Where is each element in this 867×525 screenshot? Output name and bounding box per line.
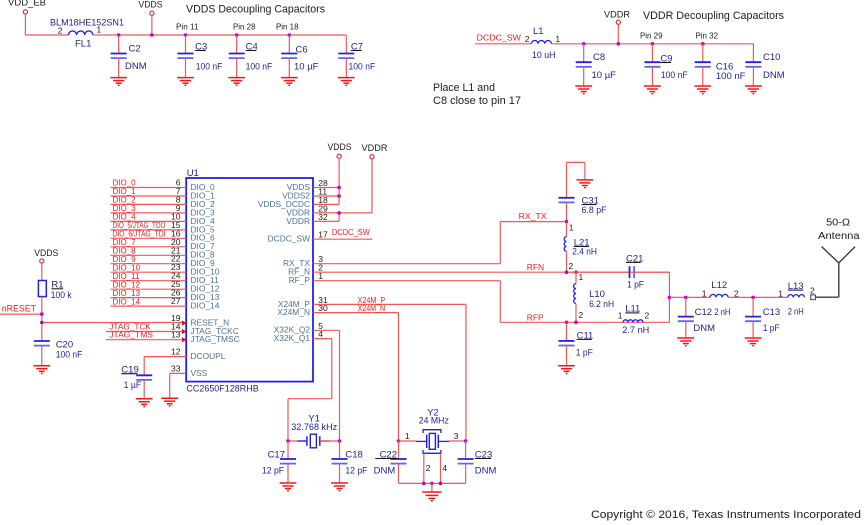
U1 pin 14 [171,322,181,332]
junction VDDS pin 28 [337,186,341,190]
svg-text:VDDS: VDDS [139,0,163,11]
FL1 pin 2 [58,26,63,36]
capacitor C7 [338,35,375,85]
svg-text:Antenna: Antenna [818,231,860,242]
junction VDDR [617,42,621,46]
wire R1 to C20 [41,297,43,341]
U1 pin name DIO_13 [191,292,220,302]
svg-text:2: 2 [810,286,815,296]
svg-text:100 nF: 100 nF [196,61,223,72]
wire net DIO_2 [111,203,187,205]
net label DIO_2 [113,196,137,205]
power terminal VDDR [604,9,630,24]
svg-text:VDDS: VDDS [328,142,352,153]
U1 pin 23 [171,262,181,272]
svg-text:nRESET: nRESET [2,304,37,314]
capacitor C23 [458,441,497,483]
wire net DIO_14 [111,305,187,307]
svg-text:Copyright © 2016, Texas Instru: Copyright © 2016, Texas Instruments Inco… [591,509,861,521]
L10 pin 1 [579,272,584,282]
svg-text:VDDS: VDDS [34,248,58,259]
svg-text:32.768 kHz: 32.768 kHz [291,422,337,433]
U1 pin name DIO_5 [191,224,216,234]
op-amp U1 box [186,178,313,382]
U1 pin 26 [171,288,181,298]
svg-text:VDDR: VDDR [286,216,310,226]
U1 pin 18 [318,195,328,205]
U1 pin 29 [318,203,328,213]
net label RFN [527,262,544,272]
junction C3 [184,33,188,37]
svg-text:100 nF: 100 nF [246,61,273,72]
U1 pin name RF_P (pin 1) [289,275,311,285]
U1 pin name X32K_Q1 (pin 4) [274,333,311,343]
svg-text:JTAG_TMSC: JTAG_TMSC [191,334,240,344]
wire net DIO_6/JTAG_TDI [111,237,187,239]
wire VDDR riser [313,159,372,222]
label Pin 28 [233,22,256,32]
net label DCDC_SW [332,228,370,237]
junction rail pin4 [439,482,443,486]
L12 pin 2 [734,289,739,299]
capacitor C31 [559,195,607,221]
svg-text:50-Ω: 50-Ω [826,218,851,229]
capacitor C3 [177,35,222,85]
svg-text:X24M_N: X24M_N [358,304,386,313]
wire L12 to L13 [728,296,788,298]
power terminal VDD_EB [8,0,46,14]
wire VDDR bus [551,43,753,45]
svg-text:2: 2 [58,26,63,36]
wire net DIO_0 [111,187,187,189]
U1 pin 12 [171,347,181,357]
wire net JTAG_TMS [106,339,182,341]
junction rail gnd [430,482,434,486]
svg-text:VSS: VSS [191,368,208,378]
U1 pin 19 input arrow [182,320,186,325]
U1 pin name DIO_10 [191,267,220,277]
U1 pin name DIO_2 [191,199,216,209]
svg-text:FL1: FL1 [75,39,91,50]
wire RX_TX [313,222,567,264]
junction C16 [701,42,705,46]
net label DIO_6/JTAG_TDI [113,230,166,239]
capacitor C20 [33,339,82,373]
svg-text:27: 27 [171,296,181,306]
net label JTAG_TCK [109,322,151,331]
capacitor C21 [569,253,669,290]
svg-text:DNM: DNM [763,70,785,81]
svg-text:100 nF: 100 nF [661,70,688,81]
net label DIO_8 [113,247,137,256]
U1 pin name DCDC_SW (pin 17) [268,234,310,244]
svg-text:VDDS Decoupling Capacitors: VDDS Decoupling Capacitors [186,4,325,16]
U1 pin 27 [171,296,181,306]
L1 pin 1 [555,34,560,44]
junction Y1 pin 1 [286,439,290,443]
net label DIO_11 [113,272,141,281]
svg-text:100 k: 100 k [51,290,72,301]
junction C8 [582,42,586,46]
U1 pin 6 [176,178,181,188]
svg-text:2: 2 [645,311,650,321]
ground C31 [567,162,594,198]
junction C6 [288,33,292,37]
svg-text:1 pF: 1 pF [576,347,593,358]
label Pin 18 [276,22,299,32]
wire X32K_Q1 to Y1 [288,339,332,441]
svg-text:Place L1 and: Place L1 and [433,82,495,94]
wire net X24M_P [313,304,466,441]
wire DCDC_SW to L1 [475,43,531,45]
wire net X24M_N [313,313,399,441]
svg-text:12 pF: 12 pF [262,466,284,477]
junction Y1 pin 2 [338,439,342,443]
svg-text:Pin 11: Pin 11 [176,22,199,32]
svg-text:100 nF: 100 nF [349,61,376,72]
wire net JTAG_TCK [106,331,182,333]
wire Y2 ground rail [399,482,466,484]
U1 refdes [187,168,199,179]
FL1 pin 1 [97,25,102,35]
wire VDDS to R1 [41,263,43,280]
U1 pin 13 [171,330,181,340]
L21 pin 1 [569,222,574,232]
capacitor C2 [110,35,146,85]
svg-text:12: 12 [171,347,181,357]
capacitor C19 [121,365,152,407]
svg-text:X32K_Q1: X32K_Q1 [274,333,311,343]
wire net DIO_12 [111,288,187,290]
inductor L11 [622,304,649,336]
svg-text:C6: C6 [296,45,308,56]
wire net DIO_11 [111,280,187,282]
svg-text:1: 1 [97,25,102,35]
net label DIO_13 [113,289,141,298]
wire Y2 right lead [449,440,466,442]
junction nRESET [40,312,44,316]
svg-text:RF_P: RF_P [289,275,311,285]
wire net DIO_9 [111,263,187,265]
U1 pin 20 [171,237,181,247]
ground VSS [161,398,178,406]
capacitor C10 [745,44,785,94]
L11 pin 2 [645,311,650,321]
wire net DCDC_SW [313,238,372,240]
net label DIO_14 [113,297,141,306]
svg-text:17: 17 [318,230,328,240]
svg-text:DCDC_SW: DCDC_SW [268,234,310,244]
U1 pin 33 [171,363,181,373]
wire net DIO_8 [111,254,187,256]
svg-text:Pin 28: Pin 28 [233,22,256,32]
svg-text:C13: C13 [763,307,780,318]
U1 pin name VDDS_DCDC (pin 18) [258,199,310,209]
U1 pin name RESET_N [191,317,230,327]
svg-text:1: 1 [618,311,623,321]
U1 pin name DCOUPL [191,351,226,361]
Y2 pin 4 label [442,463,447,473]
L1 pin 2 [525,34,530,44]
svg-text:1: 1 [778,289,783,299]
svg-text:C18: C18 [345,449,362,460]
U1 pin 11 [318,187,327,197]
svg-text:1 pF: 1 pF [627,280,644,291]
Y2 pin 1 [405,431,410,441]
U1 pin name DIO_12 [191,284,220,294]
wire RF output [669,296,710,298]
wire net DIO_5/JTAG_TDO [111,229,187,231]
U1 pin name VDDS (pin 28) [287,182,311,192]
U1 pin name X24M_P (pin 31) [278,299,311,309]
resistor R1 [38,280,72,301]
inductor L10 [574,272,615,322]
wire VDD_EB to bus [25,14,68,35]
wire net DIO_7 [111,246,187,248]
wire net DIO_4 [111,220,187,222]
capacitor C11 [558,322,593,373]
wire DCOUPL [144,357,186,376]
svg-text:DIO_14: DIO_14 [113,297,141,306]
U1 pin name VSS [191,368,208,378]
junction C13 [751,296,755,300]
net label DIO_5/JTAG_TDO [113,221,166,230]
U1 pin 17 [318,230,328,240]
label Pin 29 [640,30,663,40]
svg-text:12 pF: 12 pF [345,466,367,477]
net label JTAG_TMS [109,330,153,339]
svg-text:Pin 32: Pin 32 [696,30,719,40]
wire Y2 pin 2 [423,453,425,483]
net label DIO_3 [113,204,137,213]
U1 pin name RF_N (pin 2) [288,267,310,277]
svg-text:6.2 nH: 6.2 nH [589,299,614,310]
svg-text:C12: C12 [695,307,712,318]
U1 pin 15 [171,220,181,230]
L10 pin 2 [579,310,584,320]
svg-text:2.4 nH: 2.4 nH [572,247,597,258]
L21 pin 2 [569,261,574,271]
net label DIO_4 [113,213,137,222]
L12 pin 1 [702,289,707,299]
net label X24M_P [358,296,386,305]
U1 pin 22 [171,254,181,264]
svg-text:100 nF: 100 nF [716,71,746,82]
svg-text:C8: C8 [593,52,605,63]
wire Y2 left lead [399,440,416,442]
junction RFN-L21 [565,270,569,274]
svg-text:DCDC_SW: DCDC_SW [477,33,521,43]
U1 pin 30 [318,303,328,313]
U1 pin name DIO_9 [191,258,216,268]
U1 pin 1 [318,271,323,281]
net label DCDC_SW (top) [477,33,521,43]
net label DIO_12 [113,280,141,289]
capacitor C9 [644,44,688,94]
svg-text:1 µF: 1 µF [124,380,142,391]
svg-text:1: 1 [555,34,560,44]
wire X32K_Q2 to Y1 [313,330,340,441]
junction Y2 pin 1 node [397,439,401,443]
U1 pin name DIO_3 [191,207,216,217]
wire Y1 right lead [320,440,340,442]
Y2 pin 2 label [426,463,431,473]
U1 pin 7 [176,186,181,196]
junction VDDS pin 11 [337,194,341,198]
junction RX_TX node [565,220,569,224]
svg-text:Pin 29: Pin 29 [640,30,663,40]
svg-text:RX_TX: RX_TX [519,211,547,221]
svg-text:RFP: RFP [527,312,544,322]
inductor L12 [710,280,730,318]
inductor L21 [564,222,597,273]
net label RX_TX [519,211,547,221]
U1 pin 32 [318,212,328,222]
U1 pin name X32K_Q2 (pin 5) [274,325,311,335]
U1 pin name DIO_0 [191,182,216,192]
wire VDDR terminal to bus [617,24,619,44]
wire VDDS terminal to bus [151,15,153,35]
label Pin 11 [176,22,199,32]
svg-text:VDDR Decoupling Capacitors: VDDR Decoupling Capacitors [643,10,784,22]
junction RFN-L10 [574,270,578,274]
U1 pin name DIO_1 [191,190,216,200]
U1 pin 21 [171,245,181,255]
U1 pin 3 [318,254,323,264]
net label DIO_7 [113,238,137,247]
title VDDS Decoupling Capacitors [186,4,325,16]
junction RFP-L10 [574,321,578,325]
junction nRESET-RESET_N [40,321,44,325]
junction C9 [651,42,655,46]
svg-text:2: 2 [569,261,574,271]
U1 pin name DIO_7 [191,241,216,251]
svg-text:10 µF: 10 µF [294,61,319,72]
svg-text:VDDR: VDDR [604,9,630,20]
svg-text:1: 1 [579,272,584,282]
net label DIO_0 [113,179,137,188]
U1 pin 25 [171,279,181,289]
svg-text:6.8 pF: 6.8 pF [582,205,607,216]
svg-text:VDDR: VDDR [362,143,388,154]
capacitor C4 [228,35,272,85]
inductor L1 [531,26,555,61]
wire RFN [313,271,669,273]
crystal Y2 24 MHz [416,407,449,453]
title VDDR Decoupling Capacitors [643,10,784,22]
U1 pin name VDDS2 (pin 11) [282,190,310,200]
wire Y2 pin 4 [440,453,442,483]
svg-text:DNM: DNM [693,323,715,334]
U1 pin name X24M_N (pin 30) [277,307,310,317]
power terminal VDDS (chip) [328,142,352,158]
capacitor C6 [281,35,319,85]
capacitor C16 [694,44,745,94]
svg-text:C2: C2 [129,43,141,54]
wire C21 to output node [668,272,670,322]
ferrite bead FL1 [50,18,124,50]
junction VDDS [150,33,154,37]
wire net DIO_10 [111,271,187,273]
svg-text:1: 1 [702,289,707,299]
svg-text:DNM: DNM [125,61,147,72]
svg-text:L1: L1 [533,26,544,37]
U1 pin name VDDR (pin 29) [286,207,310,217]
junction C2 [117,33,121,37]
svg-text:3: 3 [454,431,459,441]
capacitor C17 [262,441,296,491]
U1 part number CC2650F128RHB [186,384,258,395]
U1 pin 31 [318,295,328,305]
net label nRESET [2,304,37,314]
wire nRESET to pin 19 [42,322,182,324]
net label DIO_9 [113,255,137,264]
svg-text:L12: L12 [711,280,727,291]
svg-text:C8 close to pin 17: C8 close to pin 17 [433,95,521,107]
wire Y1 left lead [288,440,307,442]
svg-text:DNM: DNM [374,466,396,477]
svg-text:2 nH: 2 nH [714,307,730,318]
svg-text:X24M_N: X24M_N [277,307,310,317]
U1 pin name DIO_11 [191,275,220,285]
U1 pin name DIO_6 [191,233,216,243]
U1 pin 5 [318,321,323,331]
capacitor C13 [745,297,780,345]
svg-text:24 MHz: 24 MHz [419,416,449,427]
U1 pin 16 [171,228,181,238]
antenna 50 ohm [816,218,861,298]
L13 pin 2 [810,286,815,296]
svg-text:2: 2 [579,310,584,320]
svg-text:10 uH: 10 uH [532,50,556,61]
junction RFP-C11 [565,321,569,325]
wire RFP [313,281,669,323]
U1 pin name JTAG_TCKC [191,326,239,336]
svg-text:DCOUPL: DCOUPL [191,351,226,361]
svg-text:U1: U1 [187,168,199,179]
svg-text:DCDC_SW: DCDC_SW [332,228,370,237]
net label DIO_10 [113,263,141,272]
svg-text:DNM: DNM [475,466,497,477]
svg-text:2.7 nH: 2.7 nH [622,325,649,336]
inductor L13 [788,281,805,318]
svg-text:CC2650F128RHB: CC2650F128RHB [186,384,258,395]
U1 pin name JTAG_TMSC [191,334,240,344]
U1 pin 2 [318,263,323,273]
U1 pin name VDDR (pin 32) [286,216,310,226]
svg-text:RFN: RFN [527,262,544,272]
svg-text:100 nF: 100 nF [56,349,83,360]
wire net nRESET [0,313,42,315]
capacitor C8 [575,44,616,94]
junction C4 [235,33,239,37]
net label DIO_1 [113,187,137,196]
wire VDDS riser [313,158,339,204]
U1 pin name DIO_8 [191,250,216,260]
svg-text:1: 1 [405,431,410,441]
junction RF output [668,296,672,300]
svg-text:Pin 18: Pin 18 [276,22,299,32]
junction rail pin2 [422,482,426,486]
svg-text:10 µF: 10 µF [592,70,617,81]
U1 pin 13 input arrow [182,337,186,342]
junction Y2 pin 3 node [464,439,468,443]
svg-text:2: 2 [426,463,431,473]
svg-text:C10: C10 [763,52,780,63]
U1 pin name DIO_4 [191,216,216,226]
svg-text:4: 4 [442,463,447,473]
U1 pin 19 [171,313,181,323]
